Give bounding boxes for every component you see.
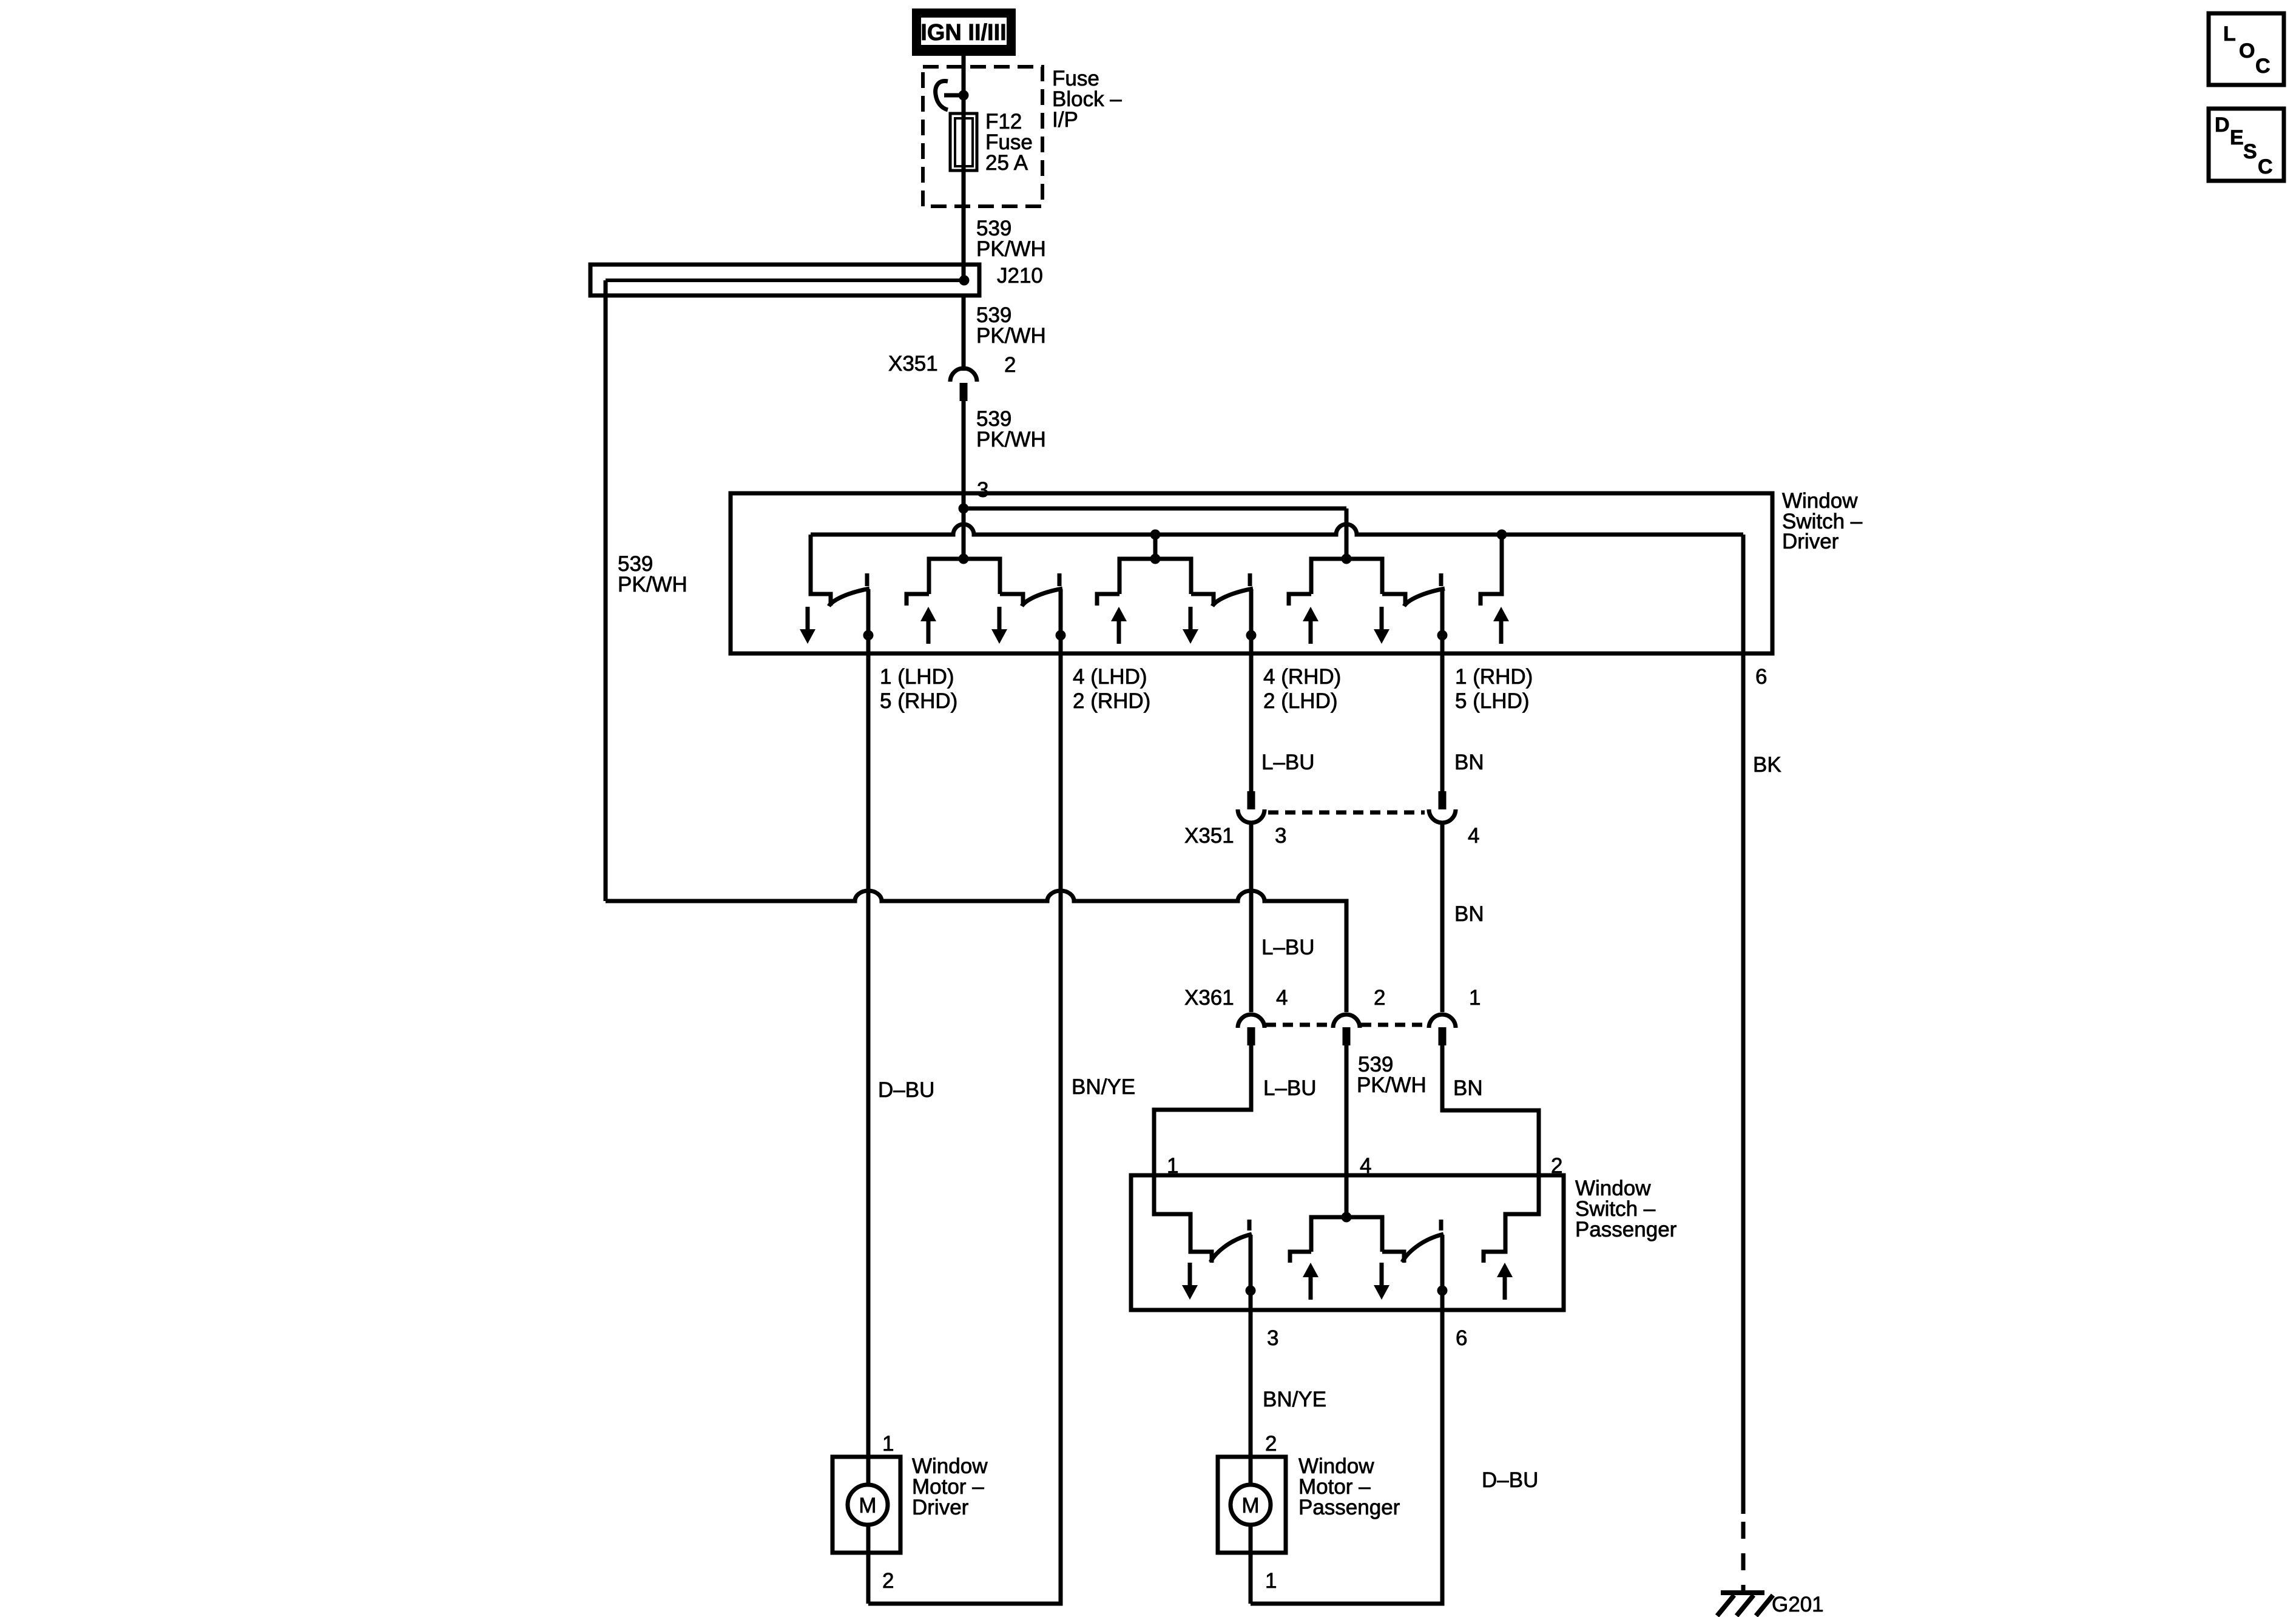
node dot passenger switch 1 output	[1246, 1286, 1256, 1296]
switch 2 wiper arm	[1022, 589, 1062, 606]
DESC reference box	[2209, 109, 2284, 181]
passenger switch 2 bridge	[1290, 1217, 1404, 1263]
wire BN jog to passenger switch pin 2	[1442, 1045, 1539, 1175]
switch 5 contact (up only)	[1481, 535, 1502, 606]
passenger switch 3 up arrow	[1497, 1263, 1513, 1300]
passenger switch 2 down arrow	[1374, 1263, 1389, 1300]
wire label 539 PK/WH (above driver switch)	[976, 407, 1046, 451]
wire switch 1 output to pin 1(LHD)/5(RHD)	[866, 589, 871, 653]
switch 1 pivot tick	[865, 573, 869, 586]
junction dot in fuse block	[959, 90, 969, 101]
svg-text:BK: BK	[1753, 753, 1781, 777]
switch 4 down arrow	[1374, 607, 1389, 644]
power feed box IGN II/III	[912, 8, 1016, 56]
svg-text:L–BU: L–BU	[1263, 1076, 1317, 1100]
switch 2 bridge	[907, 559, 1023, 606]
label X351 pin 2	[888, 352, 1016, 377]
dashed connector link X361 right	[1361, 1023, 1428, 1027]
wire through passenger motor	[1249, 1525, 1253, 1604]
node dot switch 4 output	[1437, 630, 1448, 641]
splice J210	[590, 265, 979, 295]
svg-text:L–BU: L–BU	[1261, 936, 1315, 959]
passenger switch 1 wiper arm	[1210, 1234, 1252, 1262]
fuse block terminal hook	[936, 81, 962, 110]
label Window Motor - Passenger	[1298, 1454, 1400, 1519]
wire switch 4 feed stub	[1345, 508, 1349, 559]
switch 4 up arrow	[1303, 607, 1319, 644]
node dot switch 3 bridge	[1150, 554, 1161, 564]
svg-text:Driver: Driver	[1782, 530, 1839, 553]
svg-text:Passenger: Passenger	[1298, 1496, 1400, 1519]
wire switch 3 output to pin 4(RHD)/2(LHD)	[1249, 589, 1254, 653]
label X351 row	[1184, 824, 1479, 848]
wire BN/YE driver return	[868, 653, 1061, 1604]
connector X351 pin 3	[1238, 791, 1264, 823]
svg-text:X351: X351	[1184, 824, 1234, 848]
connector X361 pin 2	[1333, 1014, 1360, 1045]
svg-text:1: 1	[1265, 1569, 1277, 1593]
switch 2 down arrow	[991, 607, 1007, 644]
node dot switch 1 output	[863, 630, 874, 641]
wire BN to X351 pin 4	[1440, 653, 1445, 791]
svg-text:BN: BN	[1454, 751, 1484, 774]
switch 4 pivot tick	[1439, 573, 1443, 586]
svg-text:6: 6	[1755, 665, 1767, 689]
svg-text:2: 2	[1004, 353, 1016, 377]
node dot switch 2 bridge	[959, 554, 969, 564]
passenger switch 1 pivot tick	[1248, 1220, 1252, 1230]
switch 5 up arrow	[1493, 607, 1509, 644]
svg-text:L–BU: L–BU	[1261, 751, 1315, 774]
switch 2 up arrow	[920, 607, 936, 644]
svg-text:25 A: 25 A	[985, 151, 1028, 175]
wire 539 PK/WH left branch from J210	[604, 280, 608, 901]
svg-text:D–BU: D–BU	[878, 1078, 934, 1102]
switch 3 pivot tick	[1248, 573, 1252, 586]
wire L-BU between X351 and X361	[1249, 823, 1254, 1012]
passenger switch 2 up arrow	[1303, 1263, 1319, 1300]
passenger switch 1 contact (down)	[1154, 1175, 1212, 1263]
svg-text:PK/WH: PK/WH	[1357, 1073, 1427, 1097]
wire label 539 PK/WH (above J210)	[976, 217, 1046, 261]
svg-text:4 (RHD): 4 (RHD)	[1263, 665, 1341, 689]
wire BK from pin 6	[1741, 653, 1746, 1514]
label X361 row	[1184, 986, 1481, 1010]
motor M circle (driver)	[848, 1485, 888, 1525]
svg-text:4: 4	[1468, 824, 1479, 848]
wire passenger switch 1 output to pin 3	[1249, 1235, 1253, 1310]
svg-text:PK/WH: PK/WH	[618, 573, 687, 596]
pin label 4 (LHD) 2 (RHD)	[1073, 665, 1150, 713]
dashed connector link X361 left	[1266, 1023, 1332, 1027]
svg-text:2: 2	[882, 1569, 894, 1593]
wire passenger switch 2 output to pin 6	[1440, 1235, 1445, 1310]
svg-text:M: M	[859, 1494, 876, 1517]
passenger switch 3 contact (up)	[1484, 1175, 1539, 1263]
LOC reference box	[2209, 13, 2284, 85]
wire switch 4 output to pin 1(RHD)/5(LHD)	[1440, 589, 1445, 653]
svg-text:1: 1	[882, 1432, 894, 1456]
svg-text:2 (LHD): 2 (LHD)	[1263, 689, 1338, 713]
svg-text:IGN II/III: IGN II/III	[920, 20, 1006, 46]
svg-text:3: 3	[1267, 1326, 1278, 1350]
wire 539 PK/WH horizontal with hops to X361 pin 2	[606, 891, 1346, 1012]
passenger switch 1 down arrow	[1182, 1263, 1198, 1300]
node dot switch 5 feed	[1497, 530, 1507, 540]
svg-text:J210: J210	[997, 264, 1043, 288]
wire label 539 PK/WH (left branch)	[618, 552, 687, 596]
wire D-BU passenger return	[1251, 1310, 1442, 1604]
wire 539 PK/WH to passenger switch pin 4	[1345, 1045, 1349, 1217]
wire J210 to connector X351 pin 2	[962, 295, 966, 371]
node feed junction dot (pin 3 entry)	[959, 504, 969, 514]
ground G201 symbol	[1717, 1593, 1773, 1616]
pin label 4 (RHD) 2 (LHD)	[1263, 665, 1341, 713]
svg-text:4 (LHD): 4 (LHD)	[1073, 665, 1147, 689]
wire X351-2 to window switch driver pin 3	[962, 401, 966, 559]
passenger switch 2 wiper arm	[1402, 1234, 1443, 1262]
switch 4 wiper arm	[1404, 589, 1445, 606]
switch 3 wiper arm	[1212, 589, 1253, 606]
label Window Switch - Passenger	[1575, 1176, 1677, 1241]
svg-text:1 (RHD): 1 (RHD)	[1455, 665, 1533, 689]
svg-text:X361: X361	[1184, 986, 1234, 1010]
svg-text:BN: BN	[1454, 902, 1484, 926]
junction dot J210	[959, 275, 970, 286]
node dot switch 3 output	[1246, 630, 1257, 641]
svg-text:5 (LHD): 5 (LHD)	[1455, 689, 1530, 713]
wire pin 6 inside box	[1741, 535, 1746, 653]
label Window Motor - Driver	[912, 1454, 988, 1519]
label F12 Fuse 25 A	[985, 110, 1033, 175]
svg-text:G201: G201	[1772, 1593, 1824, 1616]
switch 3 feed stub	[1153, 535, 1158, 559]
window motor passenger box	[1218, 1457, 1286, 1553]
window switch passenger box	[1131, 1175, 1564, 1310]
node dot switch 2 output	[1056, 630, 1066, 641]
wire switch 2 output to pin 4(LHD)/2(RHD)	[1059, 589, 1063, 653]
connector X351 pin 2	[950, 368, 977, 401]
svg-text:C: C	[2255, 55, 2271, 78]
wire feed bus A (to switch 4)	[964, 507, 1346, 511]
svg-text:2 (RHD): 2 (RHD)	[1073, 689, 1150, 713]
wire IGN to fuse block	[962, 55, 966, 95]
connector X361 pin 4	[1238, 1014, 1264, 1045]
wire label 539 PK/WH (below J210)	[976, 303, 1046, 348]
connector X361 pin 1	[1429, 1014, 1456, 1045]
switch 3 bridge	[1097, 559, 1214, 606]
svg-text:BN/YE: BN/YE	[1072, 1075, 1135, 1099]
motor M circle (passenger)	[1231, 1485, 1271, 1525]
wire through fuse F12	[962, 95, 966, 280]
wire L-BU jog to passenger switch pin 1	[1154, 1045, 1251, 1175]
switch 1 wiper arm	[829, 589, 869, 606]
svg-text:PK/WH: PK/WH	[976, 324, 1046, 348]
node dot switch 3 feed	[1150, 530, 1161, 540]
pin label 1 (RHD) 5 (LHD)	[1455, 665, 1533, 713]
wire L-BU to X351 pin 3	[1249, 653, 1254, 791]
switch 3 down arrow	[1183, 607, 1198, 644]
pin label 1 (LHD) 5 (RHD)	[880, 665, 957, 713]
svg-text:L: L	[2223, 22, 2236, 46]
svg-text:Passenger: Passenger	[1575, 1218, 1677, 1241]
wire BK dashed segment to ground	[1741, 1522, 1746, 1595]
switch 1 down arrow	[800, 607, 815, 644]
wire through driver motor	[866, 1525, 871, 1604]
passenger switch 2 pivot tick	[1439, 1220, 1443, 1230]
svg-text:2: 2	[1374, 986, 1385, 1010]
wire BN between X351 and X361	[1440, 823, 1445, 1012]
svg-text:Driver: Driver	[912, 1496, 969, 1519]
svg-text:PK/WH: PK/WH	[976, 237, 1046, 261]
connector X351 pin 4	[1429, 791, 1456, 823]
svg-text:1: 1	[1469, 986, 1481, 1010]
window motor driver box	[832, 1457, 900, 1553]
label Window Switch - Driver	[1782, 489, 1863, 553]
svg-text:5 (RHD): 5 (RHD)	[880, 689, 957, 713]
node dot switch 4 bridge	[1342, 554, 1352, 564]
svg-text:BN/YE: BN/YE	[1263, 1388, 1326, 1411]
svg-text:2: 2	[1265, 1432, 1277, 1456]
svg-text:S: S	[2243, 140, 2257, 163]
label Fuse Block - I/P	[1052, 67, 1122, 132]
svg-text:3: 3	[1275, 824, 1286, 848]
node dot passenger switch 2 bridge	[1342, 1212, 1352, 1223]
switch 4 bridge	[1289, 559, 1405, 606]
svg-text:PK/WH: PK/WH	[976, 428, 1046, 451]
svg-text:E: E	[2230, 126, 2244, 149]
switch 3 up arrow	[1111, 607, 1127, 644]
svg-text:M: M	[1241, 1494, 1259, 1517]
fuse block dashed outline	[923, 67, 1042, 206]
svg-text:I/P: I/P	[1052, 108, 1078, 132]
wire label 539 PK/WH (passenger feed)	[1357, 1053, 1427, 1097]
wire D-BU driver	[866, 653, 871, 1485]
wire bus B with hops (switch 1,3,5 and pin 6)	[811, 524, 1743, 535]
window switch driver box	[731, 493, 1772, 653]
switch 2 pivot tick	[1058, 573, 1062, 586]
switch 1 contact (down, driver window)	[811, 535, 831, 606]
svg-text:D–BU: D–BU	[1482, 1468, 1538, 1492]
node dot passenger switch 2 output	[1437, 1286, 1448, 1296]
svg-text:3: 3	[977, 478, 988, 502]
svg-text:C: C	[2258, 155, 2273, 178]
svg-text:4: 4	[1276, 986, 1288, 1010]
svg-text:O: O	[2239, 39, 2255, 62]
svg-text:1 (LHD): 1 (LHD)	[880, 665, 954, 689]
svg-text:6: 6	[1456, 1326, 1467, 1350]
dashed connector link X351	[1268, 811, 1425, 815]
svg-text:D: D	[2215, 113, 2230, 137]
svg-text:X351: X351	[888, 352, 938, 376]
fuse F12 symbol	[950, 113, 977, 170]
svg-text:BN: BN	[1453, 1076, 1483, 1100]
wire BN/YE passenger to motor	[1249, 1310, 1253, 1485]
